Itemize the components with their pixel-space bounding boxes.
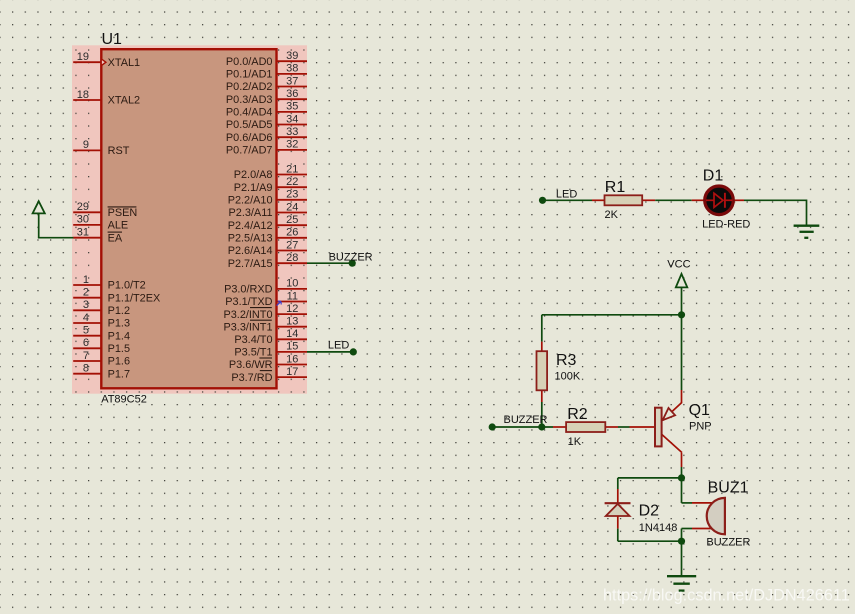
svg-text:18: 18: [77, 89, 89, 101]
U1 pin 29 PSEN: [73, 201, 137, 219]
svg-text:24: 24: [286, 201, 298, 213]
U1 pin 4 P1.3: [73, 312, 130, 330]
U1 pin 15 P3.5/T1: [234, 341, 307, 359]
svg-text:36: 36: [286, 88, 298, 100]
svg-text:19: 19: [77, 51, 89, 63]
U1 pin 37 P0.2/AD2: [226, 75, 307, 93]
junction dot bottom node: [678, 538, 685, 545]
svg-text:23: 23: [286, 189, 298, 201]
svg-text:P3.3/INT1: P3.3/INT1: [223, 321, 272, 333]
svg-text:P2.4/A12: P2.4/A12: [228, 220, 273, 232]
svg-text:30: 30: [77, 214, 89, 226]
junction dot VCC node: [678, 311, 685, 318]
wire BUZZER terminal to R2: [492, 426, 553, 428]
svg-text:3: 3: [83, 299, 89, 311]
svg-text:BUZZER: BUZZER: [706, 537, 750, 549]
svg-text:P0.2/AD2: P0.2/AD2: [226, 81, 273, 93]
svg-text:34: 34: [286, 113, 298, 125]
svg-text:P2.2/A10: P2.2/A10: [228, 195, 273, 207]
svg-text:P3.7/RD: P3.7/RD: [231, 372, 272, 384]
svg-text:XTAL1: XTAL1: [108, 57, 141, 69]
svg-text:EA: EA: [108, 232, 123, 244]
junction dot LED rail left terminal: [539, 197, 546, 204]
svg-text:14: 14: [286, 328, 298, 340]
svg-text:P1.4: P1.4: [108, 330, 130, 342]
svg-text:1N4148: 1N4148: [639, 522, 678, 534]
svg-text:VCC: VCC: [667, 259, 690, 271]
wire down to R3: [541, 315, 543, 342]
svg-text:BUZZER: BUZZER: [329, 252, 373, 264]
U1 pin 11 blue marker: [277, 301, 282, 306]
svg-text:P2.0/A8: P2.0/A8: [234, 169, 273, 181]
U1 pin 32 P0.7/AD7: [226, 139, 307, 157]
U1 pin 36 P0.3/AD3: [226, 88, 307, 106]
svg-text:28: 28: [286, 252, 298, 264]
svg-text:P3.0/RXD: P3.0/RXD: [224, 284, 273, 296]
svg-text:13: 13: [286, 316, 298, 328]
buzzer BUZ1: [692, 498, 725, 534]
svg-text:P0.7/AD7: P0.7/AD7: [226, 145, 273, 157]
ground (bottom): [667, 576, 696, 590]
U1 pin 8 P1.7: [73, 363, 130, 381]
power VCC arrow: [676, 274, 688, 315]
svg-text:AT89C52: AT89C52: [101, 393, 147, 405]
svg-text:100K: 100K: [555, 371, 581, 383]
wire Q1 collector down: [681, 467, 683, 478]
svg-text:LED: LED: [328, 339, 349, 351]
transistor Q1 (PNP): [630, 315, 683, 467]
U1 pin 26 P2.5/A13: [228, 227, 307, 245]
svg-text:P2.3/A11: P2.3/A11: [229, 207, 273, 219]
svg-text:10: 10: [286, 278, 298, 290]
svg-text:P1.5: P1.5: [108, 343, 130, 355]
diode D2: [605, 489, 631, 529]
U1 pin 23 P2.2/A10: [228, 189, 307, 207]
power VCC arrow (to EA pin 31): [33, 201, 45, 238]
wire D1 to ground: [744, 200, 807, 225]
resistor R2: [553, 422, 618, 432]
svg-text:LED-RED: LED-RED: [702, 219, 750, 231]
svg-text:P3.1/TXD: P3.1/TXD: [225, 296, 272, 308]
svg-text:R2: R2: [567, 406, 588, 423]
wire R3 to BUZZER rail: [541, 402, 543, 427]
U1 pin 17 P3.7/RD: [231, 366, 307, 384]
IC U1 AT89C52 body: [101, 49, 276, 388]
ground (right of D1): [794, 226, 820, 238]
U1 pin 34 P0.5/AD5: [226, 113, 307, 131]
wire D2 to bottom rail: [617, 529, 619, 542]
svg-text:2: 2: [83, 287, 89, 299]
svg-text:ALE: ALE: [108, 220, 129, 232]
wire collector node to BUZ1 top pin: [682, 478, 693, 503]
svg-text:P0.4/AD4: P0.4/AD4: [226, 107, 273, 119]
svg-text:8: 8: [83, 363, 89, 375]
U1 pin 14 P3.4/T0: [234, 328, 307, 346]
svg-text:https://blog.csdn.net/DJDN4266: https://blog.csdn.net/DJDN426611: [603, 587, 850, 605]
svg-text:D2: D2: [639, 502, 660, 519]
svg-text:32: 32: [286, 139, 298, 151]
svg-text:R1: R1: [605, 179, 626, 196]
U1 pin 1 P1.0/T2: [73, 274, 146, 292]
svg-text:U1: U1: [102, 31, 123, 48]
svg-text:16: 16: [286, 353, 298, 365]
wire VCC node to R3 branch: [542, 314, 682, 316]
wire bottom node to ground: [681, 541, 683, 575]
U1 pin 18 XTAL2: [73, 89, 140, 107]
U1 pin 6 P1.5: [73, 337, 130, 355]
svg-text:RST: RST: [108, 145, 130, 157]
U1 pin 30 ALE: [73, 214, 128, 232]
svg-text:21: 21: [286, 163, 298, 175]
U1 pin 19 XTAL1: [73, 51, 140, 69]
svg-text:P1.0/T2: P1.0/T2: [108, 280, 146, 292]
junction dot LED terminal: [350, 348, 357, 355]
svg-text:BUZ1: BUZ1: [708, 480, 749, 497]
U1 pin 16 P3.6/WR: [229, 353, 307, 371]
svg-text:P2.1/A9: P2.1/A9: [234, 182, 273, 194]
svg-text:27: 27: [286, 239, 298, 251]
svg-text:25: 25: [286, 214, 298, 226]
wire pin15 to LED terminal: [307, 351, 353, 353]
wire LED terminal to R1: [543, 199, 593, 201]
svg-text:38: 38: [286, 63, 298, 75]
svg-text:P1.3: P1.3: [108, 318, 130, 330]
U1 pin 5 P1.4: [73, 325, 130, 343]
svg-text:P1.1/T2EX: P1.1/T2EX: [108, 292, 161, 304]
svg-text:5: 5: [83, 325, 89, 337]
U1 pin 13 P3.3/INT1: [223, 316, 307, 334]
svg-text:P2.5/A13: P2.5/A13: [228, 233, 273, 245]
wire down to D2: [617, 478, 619, 489]
wire pin28 to BUZZER terminal: [307, 262, 352, 264]
U1 pin 27 P2.6/A14: [228, 239, 307, 257]
wire R2 to Q1 base: [618, 426, 630, 428]
wire BUZ1 bottom pin to bottom node: [682, 529, 693, 542]
junction dot R3/R2 node: [538, 423, 545, 430]
svg-text:P0.6/AD6: P0.6/AD6: [226, 132, 273, 144]
svg-text:P3.2/INT0: P3.2/INT0: [223, 309, 272, 321]
svg-text:LED: LED: [556, 188, 577, 200]
svg-text:P3.6/WR: P3.6/WR: [229, 359, 273, 371]
svg-text:29: 29: [77, 201, 89, 213]
svg-text:P0.1/AD1: P0.1/AD1: [226, 69, 273, 81]
U1 pin 12 P3.2/INT0: [223, 303, 307, 321]
svg-text:XTAL2: XTAL2: [108, 95, 141, 107]
U1 pin 35 P0.4/AD4: [226, 101, 307, 119]
U1 pin 25 P2.4/A12: [228, 214, 307, 232]
svg-text:6: 6: [83, 337, 89, 349]
U1 pin 31 EA: [73, 227, 123, 245]
svg-text:P1.2: P1.2: [108, 305, 130, 317]
U1 pin 11 P3.1/TXD: [225, 290, 307, 308]
svg-text:1: 1: [83, 274, 89, 286]
U1 pin 19 clock input arrow: [101, 59, 106, 66]
svg-text:4: 4: [83, 312, 89, 324]
junction dot BUZZER terminal: [349, 260, 356, 267]
svg-text:PNP: PNP: [689, 420, 712, 432]
svg-text:PSEN: PSEN: [108, 207, 138, 219]
U1 pin 3 P1.2: [73, 299, 130, 317]
U1 pin 9 RST: [73, 139, 130, 157]
svg-text:Q1: Q1: [689, 402, 710, 419]
U1 pin 7 P1.6: [73, 350, 130, 368]
svg-text:12: 12: [286, 303, 298, 315]
svg-text:P0.5/AD5: P0.5/AD5: [226, 119, 273, 131]
U1 pin 10 P3.0/RXD: [224, 278, 307, 296]
wire R1 to D1: [655, 199, 692, 201]
resistor R1: [592, 195, 655, 205]
U1 pin 22 P2.1/A9: [234, 176, 307, 194]
svg-text:22: 22: [286, 176, 298, 188]
svg-text:26: 26: [286, 227, 298, 239]
svg-text:P3.5/T1: P3.5/T1: [234, 347, 272, 359]
svg-text:P0.0/AD0: P0.0/AD0: [226, 56, 273, 68]
svg-text:39: 39: [286, 50, 298, 62]
U1 pin 33 P0.6/AD6: [226, 126, 307, 144]
U1 pin 28 P2.7/A15: [228, 252, 307, 270]
U1 pin 24 P2.3/A11: [229, 201, 308, 219]
svg-text:P0.3/AD3: P0.3/AD3: [226, 94, 273, 106]
svg-text:7: 7: [83, 350, 89, 362]
junction dot BUZZER rail left terminal: [489, 423, 496, 430]
svg-text:P2.6/A14: P2.6/A14: [228, 245, 273, 257]
wire bottom rail: [618, 540, 682, 542]
svg-text:P1.7: P1.7: [108, 368, 130, 380]
svg-text:37: 37: [286, 75, 298, 87]
wire EA power arrow to pin 31: [38, 237, 74, 239]
svg-text:2K: 2K: [605, 209, 619, 221]
svg-text:P3.4/T0: P3.4/T0: [234, 334, 272, 346]
svg-text:P1.6: P1.6: [108, 356, 130, 368]
junction dot collector node: [678, 474, 685, 481]
svg-text:1K: 1K: [568, 436, 582, 448]
wire collector node to D2 branch: [618, 477, 682, 479]
svg-text:P2.7/A15: P2.7/A15: [228, 258, 273, 270]
U1 pin 2 P1.1/T2EX: [73, 287, 161, 305]
svg-text:R3: R3: [556, 352, 577, 369]
U1 pin 21 P2.0/A8: [234, 163, 307, 181]
svg-text:31: 31: [77, 227, 89, 239]
resistor R3: [537, 342, 548, 402]
svg-text:35: 35: [286, 101, 298, 113]
svg-text:17: 17: [286, 366, 298, 378]
svg-text:33: 33: [286, 126, 298, 138]
svg-text:9: 9: [83, 139, 89, 151]
U1 pin 39 P0.0/AD0: [226, 50, 307, 68]
LED D1: [692, 186, 744, 215]
U1 pin 38 P0.1/AD1: [226, 63, 307, 81]
svg-text:D1: D1: [703, 168, 724, 185]
svg-text:11: 11: [287, 290, 298, 302]
svg-text:15: 15: [286, 341, 298, 353]
